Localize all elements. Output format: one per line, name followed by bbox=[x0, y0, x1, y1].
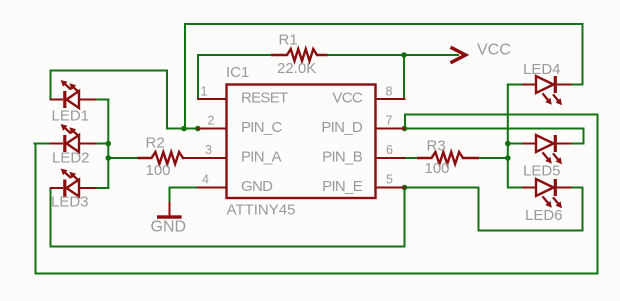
svg-text:LED2: LED2 bbox=[52, 149, 90, 166]
svg-text:2: 2 bbox=[208, 114, 215, 128]
svg-text:PIN_A: PIN_A bbox=[241, 148, 282, 165]
svg-text:6: 6 bbox=[386, 143, 393, 157]
svg-text:R2: R2 bbox=[146, 135, 165, 152]
svg-text:GND: GND bbox=[241, 178, 273, 195]
svg-text:PIN_D: PIN_D bbox=[321, 119, 363, 136]
svg-text:PIN_E: PIN_E bbox=[322, 178, 363, 195]
svg-text:R3: R3 bbox=[427, 138, 446, 155]
svg-text:R1: R1 bbox=[279, 32, 298, 49]
svg-text:LED3: LED3 bbox=[51, 194, 89, 211]
svg-text:VCC: VCC bbox=[477, 42, 511, 59]
svg-text:ATTINY45: ATTINY45 bbox=[227, 201, 296, 218]
svg-text:RESET: RESET bbox=[241, 89, 288, 106]
svg-text:LED4: LED4 bbox=[523, 61, 561, 78]
svg-text:22.0K: 22.0K bbox=[277, 60, 316, 77]
svg-text:PIN_B: PIN_B bbox=[322, 148, 363, 165]
svg-text:3: 3 bbox=[205, 143, 212, 157]
svg-text:PIN_C: PIN_C bbox=[241, 119, 283, 136]
svg-text:VCC: VCC bbox=[332, 89, 362, 106]
svg-text:LED5: LED5 bbox=[523, 162, 561, 179]
svg-text:100: 100 bbox=[425, 160, 450, 177]
svg-text:1: 1 bbox=[201, 85, 208, 99]
svg-text:GND: GND bbox=[151, 218, 187, 235]
svg-text:5: 5 bbox=[386, 173, 393, 187]
svg-text:LED6: LED6 bbox=[525, 207, 563, 224]
svg-text:7: 7 bbox=[386, 114, 393, 128]
svg-text:100: 100 bbox=[146, 162, 171, 179]
svg-text:8: 8 bbox=[386, 85, 393, 99]
svg-text:LED1: LED1 bbox=[52, 107, 90, 124]
svg-text:IC1: IC1 bbox=[226, 64, 249, 81]
svg-text:4: 4 bbox=[202, 173, 209, 187]
